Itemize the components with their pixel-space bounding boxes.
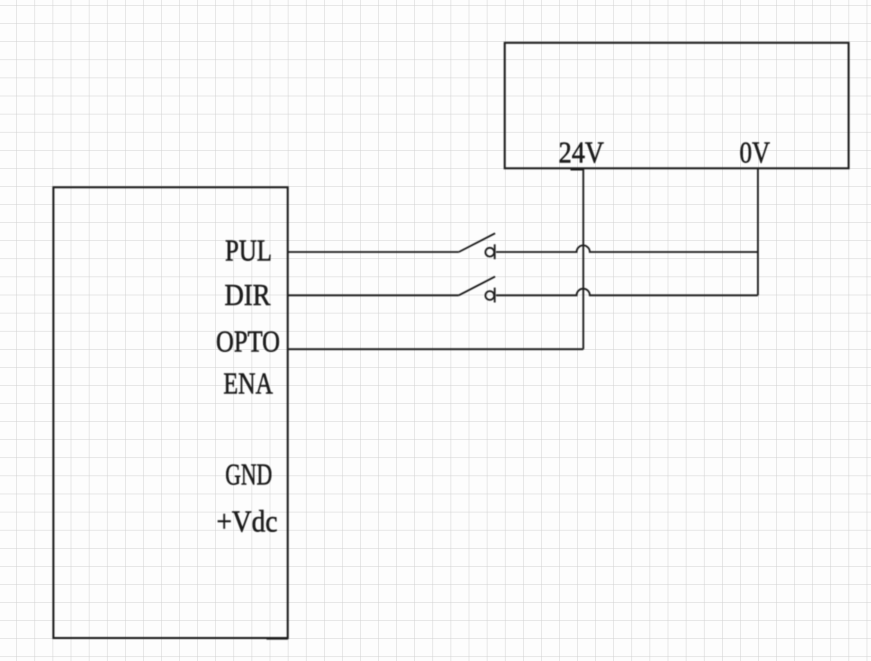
wire 24V vertical xyxy=(582,168,584,349)
wire PUL left segment xyxy=(288,251,459,253)
switch S2 jaw bar xyxy=(494,288,496,303)
power supply box U2 xyxy=(505,43,849,169)
svg-text:DIR: DIR xyxy=(225,277,271,312)
switch S2 blade xyxy=(459,277,495,296)
switch S1 contact circle xyxy=(485,248,494,257)
doubled segment at driver box bottom-right corner xyxy=(267,638,289,640)
switch S1 blade xyxy=(459,233,495,252)
svg-text:OPTO: OPTO xyxy=(216,323,280,358)
wire PUL right segment with hop over 24V line xyxy=(496,245,758,252)
svg-text:GND: GND xyxy=(225,457,272,492)
pin stub under 24V terminal xyxy=(571,169,585,171)
switch S2 contact circle xyxy=(485,291,494,300)
switch S1 jaw bar xyxy=(494,244,496,259)
wire DIR right segment with hop over 24V line xyxy=(496,289,758,296)
svg-text:PUL: PUL xyxy=(225,232,272,267)
driver box U1 xyxy=(53,187,287,638)
svg-text:0V: 0V xyxy=(740,135,771,170)
svg-text:ENA: ENA xyxy=(223,365,273,400)
svg-text:24V: 24V xyxy=(559,135,605,170)
wire 0V vertical xyxy=(757,168,759,295)
wire DIR left segment xyxy=(288,294,459,296)
svg-text:+Vdc: +Vdc xyxy=(217,504,278,539)
wire OPTO xyxy=(288,348,584,350)
